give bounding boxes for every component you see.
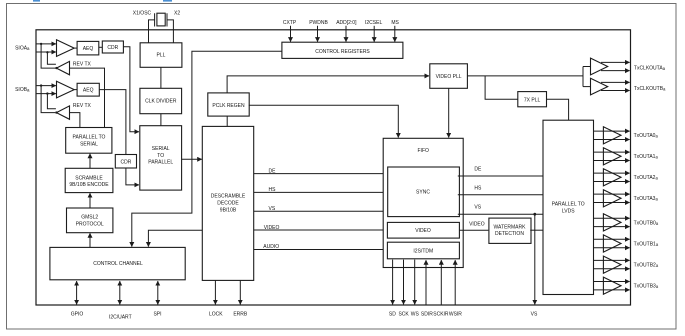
svg-text:7X PLL: 7X PLL <box>524 97 541 103</box>
svg-text:SERIAL: SERIAL <box>80 142 98 148</box>
svg-text:MS: MS <box>391 20 399 26</box>
svg-text:VIDEO: VIDEO <box>264 225 280 231</box>
svg-text:SYNC: SYNC <box>416 190 430 196</box>
svg-text:I2C/UART: I2C/UART <box>109 315 132 321</box>
svg-text:VIDEO PLL: VIDEO PLL <box>436 74 462 80</box>
svg-text:VIDEO: VIDEO <box>415 228 431 234</box>
svg-text:SIOAa: SIOAa <box>15 45 30 51</box>
svg-text:I2CSEL: I2CSEL <box>365 20 382 26</box>
svg-text:TxCLKOUTBa: TxCLKOUTBa <box>634 86 666 92</box>
svg-text:FIFO: FIFO <box>418 148 429 154</box>
svg-text:DETECTION: DETECTION <box>495 231 524 237</box>
svg-text:I2S/TDM: I2S/TDM <box>413 248 433 254</box>
svg-text:TxOUTA3a: TxOUTA3a <box>634 196 659 202</box>
svg-text:TxOUTA2a: TxOUTA2a <box>634 175 659 181</box>
svg-text:DESCRAMBLE: DESCRAMBLE <box>211 193 246 199</box>
svg-text:PARALLEL TO: PARALLEL TO <box>73 134 106 140</box>
svg-text:REV TX: REV TX <box>73 103 92 109</box>
svg-text:AEQ: AEQ <box>83 88 94 94</box>
svg-text:HS: HS <box>474 186 482 192</box>
svg-text:TxOUTB3a: TxOUTB3a <box>634 284 659 290</box>
svg-text:GPIO: GPIO <box>71 311 84 317</box>
svg-text:LOCK: LOCK <box>209 311 223 317</box>
svg-text:PROTOCOL: PROTOCOL <box>76 222 104 228</box>
svg-text:TxCLKOUTAa: TxCLKOUTAa <box>634 66 666 72</box>
svg-text:AEQ: AEQ <box>83 46 94 52</box>
svg-text:PARALLEL TO: PARALLEL TO <box>552 201 585 207</box>
svg-text:PWDNB: PWDNB <box>309 20 328 26</box>
svg-text:AUDIO: AUDIO <box>263 244 279 250</box>
svg-text:ADD[2:0]: ADD[2:0] <box>336 20 357 26</box>
svg-text:X2: X2 <box>174 10 180 16</box>
svg-text:WS: WS <box>411 311 420 317</box>
svg-text:CONTROL CHANNEL: CONTROL CHANNEL <box>93 261 143 267</box>
svg-text:VS: VS <box>269 206 276 212</box>
svg-text:LVDS: LVDS <box>562 208 575 214</box>
svg-text:PARALLEL: PARALLEL <box>148 160 173 166</box>
svg-text:SIOBa: SIOBa <box>15 87 30 93</box>
svg-text:SCK: SCK <box>398 311 409 317</box>
svg-text:CONTROL REGISTERS: CONTROL REGISTERS <box>315 49 370 55</box>
svg-text:SERIAL: SERIAL <box>152 146 170 152</box>
svg-text:TxOUTB1a: TxOUTB1a <box>634 241 659 247</box>
svg-text:9B/10B: 9B/10B <box>220 207 237 213</box>
svg-text:PLL: PLL <box>157 52 166 58</box>
svg-text:WATERMARK: WATERMARK <box>494 224 527 230</box>
svg-text:DE: DE <box>474 166 482 172</box>
svg-text:X1/OSC: X1/OSC <box>133 10 152 16</box>
svg-text:CLK DIVIDER: CLK DIVIDER <box>145 99 177 105</box>
svg-text:TxOUTB0a: TxOUTB0a <box>634 220 659 226</box>
svg-text:VS: VS <box>474 204 481 210</box>
svg-text:TxOUTB2a: TxOUTB2a <box>634 263 659 269</box>
svg-text:TO: TO <box>157 153 164 159</box>
svg-text:REV TX: REV TX <box>73 62 92 68</box>
svg-text:SCRAMBLE: SCRAMBLE <box>75 175 103 181</box>
svg-text:TxOUTA1a: TxOUTA1a <box>634 154 659 160</box>
svg-text:DECODE: DECODE <box>217 200 239 206</box>
svg-text:PCLK REGEN: PCLK REGEN <box>212 103 245 109</box>
svg-text:ERRB: ERRB <box>233 311 248 317</box>
svg-text:CDR: CDR <box>120 159 131 165</box>
svg-text:CDR: CDR <box>107 45 118 51</box>
svg-text:DE: DE <box>269 168 277 174</box>
svg-text:VIDEO: VIDEO <box>469 222 485 228</box>
svg-text:SD: SD <box>389 311 396 317</box>
svg-text:SDIR: SDIR <box>421 311 433 317</box>
svg-text:WSIR: WSIR <box>449 311 462 317</box>
svg-text:9B/10B ENCODE: 9B/10B ENCODE <box>69 182 109 188</box>
svg-text:TxOUTA0a: TxOUTA0a <box>634 133 659 139</box>
svg-text:GMSL2: GMSL2 <box>81 215 98 221</box>
svg-text:VS: VS <box>531 311 538 317</box>
svg-text:SPI: SPI <box>153 311 161 317</box>
svg-text:CXTP: CXTP <box>283 20 297 26</box>
svg-text:SCKIR: SCKIR <box>433 311 449 317</box>
svg-text:HS: HS <box>269 187 277 193</box>
